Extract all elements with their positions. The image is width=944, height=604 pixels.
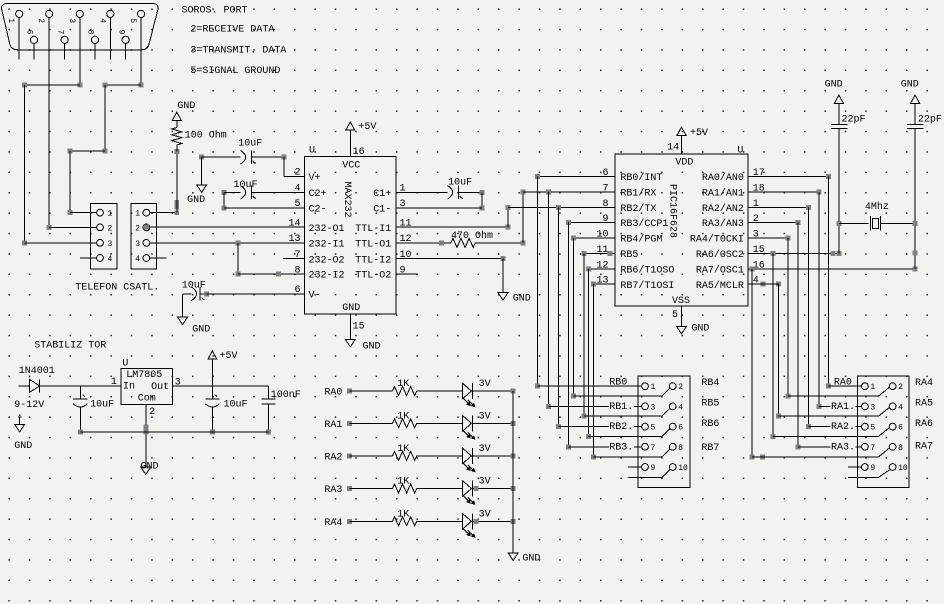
- svg-text:3: 3: [135, 240, 140, 249]
- wire R6 to LED D5: [417, 488, 463, 490]
- svg-text:4: 4: [135, 255, 140, 264]
- svg-text:10uF: 10uF: [90, 400, 114, 411]
- svg-text:1: 1: [108, 210, 113, 219]
- svg-text:C2+: C2+: [309, 189, 327, 200]
- connector J5 pin 2: [889, 383, 896, 390]
- ground symbol above R1: [172, 112, 181, 120]
- svg-text:RA0: RA0: [834, 377, 852, 388]
- svg-text:3=TRANSMIT. DATA: 3=TRANSMIT. DATA: [190, 46, 286, 57]
- wire R5 to LED D4: [417, 455, 463, 457]
- capacitor C4 10uF: [396, 191, 447, 193]
- svg-text:1: 1: [111, 377, 117, 388]
- wire J2 pin4 stub: [80, 257, 97, 259]
- svg-text:8: 8: [678, 444, 683, 453]
- connector J4 header body: [638, 376, 690, 487]
- capacitor C5 10uF: [183, 293, 192, 295]
- svg-text:10: 10: [678, 464, 688, 473]
- svg-text:GND: GND: [522, 554, 540, 565]
- svg-text:GND: GND: [141, 461, 159, 472]
- svg-text:GND: GND: [192, 325, 210, 336]
- resistor R2 470 Ohm: [396, 242, 451, 244]
- svg-text:TTL-I1: TTL-I1: [355, 224, 391, 235]
- wire U3 RA5/MCLR to J5 pin4: [760, 282, 765, 287]
- svg-text:C1+: C1+: [373, 189, 391, 200]
- node RA1 label: [831, 401, 856, 411]
- svg-text:3: 3: [175, 377, 181, 388]
- svg-text:1K: 1K: [397, 444, 409, 455]
- svg-text:RA5/MCLR: RA5/MCLR: [696, 280, 744, 292]
- wire LED D3 to ground rail: [473, 422, 513, 424]
- svg-text:RB4: RB4: [701, 378, 719, 389]
- svg-text:3: 3: [400, 199, 406, 210]
- svg-text:8: 8: [898, 444, 903, 453]
- input ground stub: [19, 414, 21, 416]
- svg-text:1: 1: [135, 210, 140, 219]
- svg-text:6: 6: [602, 168, 608, 179]
- svg-text:4: 4: [678, 403, 683, 412]
- wire J5 pin10 stub: [848, 476, 878, 478]
- svg-text:+5V: +5V: [690, 128, 708, 139]
- wire LED ground rail: [512, 391, 514, 553]
- wire C8 to ground rail: [79, 406, 81, 432]
- svg-text:232-O2: 232-O2: [309, 255, 345, 266]
- wire LED D2 to ground rail: [473, 390, 513, 392]
- ground symbol below U4: [141, 467, 151, 475]
- svg-text:RA3: RA3: [324, 485, 342, 496]
- ground symbol above C7: [911, 95, 920, 103]
- capacitor C9 10uF output: [211, 386, 213, 399]
- wire C6 to ground: [838, 103, 840, 124]
- wire J3 pin1 to resistor R1: [150, 212, 177, 214]
- svg-text:GND: GND: [187, 195, 205, 206]
- svg-text:9: 9: [116, 30, 125, 35]
- resistor R3 1K: [393, 387, 417, 396]
- svg-text:7: 7: [602, 183, 608, 194]
- ground symbol below C5: [178, 317, 188, 325]
- connector J1 DB9 shell: [1, 4, 158, 50]
- svg-text:8: 8: [294, 265, 300, 276]
- LED D4 3V: [463, 448, 472, 463]
- svg-text:12: 12: [400, 234, 412, 245]
- wire branch 232-I1 to 232-I2: [237, 243, 239, 274]
- connector J5 pin 9: [862, 464, 869, 471]
- connector J4 pin 1: [642, 383, 649, 390]
- svg-text:RA1: RA1: [324, 420, 342, 431]
- svg-text:4Mhz: 4Mhz: [865, 201, 889, 213]
- node RB2 label: [609, 421, 634, 431]
- svg-text:8: 8: [602, 199, 608, 210]
- wire R2 to U3 RB1/RX: [475, 242, 523, 244]
- LED D5 3V: [463, 481, 472, 496]
- U2 pin 16 VCC wire: [349, 130, 351, 157]
- svg-text:RB6: RB6: [701, 419, 719, 430]
- svg-text:+5V: +5V: [220, 351, 238, 362]
- svg-text:RB1/RX: RB1/RX: [620, 187, 656, 199]
- connector J1 pin 3: [76, 10, 83, 17]
- svg-text:4: 4: [753, 276, 759, 287]
- svg-text:15: 15: [353, 321, 365, 332]
- wire U3 RA6/OSC2 to J5 pin6: [748, 252, 839, 254]
- ground symbol at input: [15, 424, 25, 432]
- wire RA1 to resistor: [347, 421, 352, 426]
- LED D3 3V: [463, 416, 472, 431]
- wire C1 to U2 V+: [251, 156, 283, 158]
- wire U3 RB2 net to J4 pin5: [556, 205, 561, 210]
- svg-text:2: 2: [135, 224, 140, 233]
- capacitor C10 100nF: [267, 386, 269, 399]
- connector J2 pin 4: [97, 255, 104, 262]
- svg-text:GND: GND: [691, 324, 709, 335]
- svg-text:RA4: RA4: [324, 518, 342, 529]
- wire RA0 to resistor: [347, 389, 352, 394]
- power +5V above U2: [346, 122, 355, 130]
- svg-text:5: 5: [294, 199, 300, 210]
- svg-text:3V: 3V: [479, 379, 491, 390]
- svg-text:U: U: [122, 358, 128, 369]
- wire J1 pin2 to J2 pin2 (receive): [48, 60, 50, 228]
- wire U3 RB1 net to J4 pin3: [546, 189, 551, 194]
- svg-text:8: 8: [86, 30, 95, 35]
- connector J1 pin 9: [122, 36, 129, 43]
- svg-text:9: 9: [651, 464, 656, 473]
- svg-text:1: 1: [651, 383, 656, 392]
- svg-text:6: 6: [678, 424, 683, 433]
- LED D6 3V: [463, 514, 472, 529]
- svg-text:RA5: RA5: [915, 399, 933, 410]
- wire J1 pin5 to J2 pin1 (signal ground): [140, 60, 142, 85]
- connector J5 pin 10: [889, 464, 896, 471]
- svg-text:10uF: 10uF: [182, 280, 206, 291]
- wire C5 to U2 V-: [200, 293, 206, 295]
- ground symbol below TTL-I2 wire: [498, 293, 508, 301]
- wire U3 RB7 to J4 pin8: [594, 283, 615, 285]
- svg-text:2: 2: [294, 168, 300, 179]
- svg-text:16: 16: [753, 260, 765, 271]
- svg-text:1: 1: [753, 199, 759, 210]
- wire J4 pin9 stub: [628, 466, 642, 468]
- wire capacitor C1 left to ground: [199, 155, 204, 160]
- wire C7 to crystal net OSC1: [914, 129, 916, 269]
- node RA2 label: [831, 421, 856, 431]
- svg-text:V-: V-: [309, 290, 321, 301]
- microcontroller U3 PIC16F628 body: [615, 154, 748, 306]
- svg-text:C1-: C1-: [373, 204, 391, 215]
- svg-text:GND: GND: [342, 303, 360, 314]
- svg-text:4: 4: [294, 184, 300, 195]
- wire RA3 to resistor: [347, 486, 352, 491]
- svg-text:RB7: RB7: [701, 443, 719, 454]
- svg-text:C2-: C2-: [309, 204, 327, 215]
- connector J1 pin 7: [61, 36, 68, 43]
- connector J4 pin 10: [669, 464, 676, 471]
- svg-text:2: 2: [36, 18, 45, 23]
- connector J2 pin 2: [97, 224, 104, 231]
- svg-text:TTL-O1: TTL-O1: [355, 240, 391, 251]
- connector J4 pin 4: [669, 403, 676, 410]
- svg-text:11: 11: [596, 245, 608, 256]
- wire U3 RA3 to J5 pin7: [748, 222, 798, 224]
- svg-text:1K: 1K: [397, 411, 409, 422]
- svg-text:RB0/INT: RB0/INT: [620, 172, 662, 184]
- svg-text:9-12V: 9-12V: [14, 400, 44, 411]
- ground symbol below U2: [345, 339, 355, 347]
- svg-text:232-I2: 232-I2: [309, 271, 345, 282]
- U2 pin 7 232-O2 stub: [283, 258, 304, 260]
- svg-text:1K: 1K: [397, 509, 409, 520]
- svg-text:10uF: 10uF: [448, 177, 472, 188]
- svg-text:1K: 1K: [397, 379, 409, 390]
- svg-text:13: 13: [288, 234, 300, 245]
- svg-text:7: 7: [870, 444, 875, 453]
- wire J4 pin10 stub: [628, 476, 662, 478]
- svg-text:RB6/T1OSO: RB6/T1OSO: [620, 264, 674, 276]
- svg-text:10: 10: [596, 230, 608, 241]
- svg-text:6: 6: [294, 285, 300, 296]
- svg-text:100nF: 100nF: [271, 390, 301, 401]
- svg-text:3: 3: [753, 230, 759, 241]
- wire J3 pin3 to U2 232-I1: [150, 242, 305, 244]
- svg-text:3: 3: [67, 18, 76, 23]
- svg-text:TTL-I2: TTL-I2: [355, 255, 391, 266]
- connector J5 pin 6: [889, 423, 896, 430]
- svg-text:1: 1: [400, 184, 406, 195]
- svg-text:RB4/PGM: RB4/PGM: [620, 234, 662, 246]
- svg-text:11: 11: [400, 218, 412, 229]
- svg-text:1: 1: [870, 383, 875, 392]
- svg-text:4: 4: [898, 403, 903, 412]
- power +5V at U4 output: [211, 359, 213, 386]
- svg-text:RB3/CCP1: RB3/CCP1: [620, 218, 668, 230]
- svg-text:RA0: RA0: [324, 388, 342, 399]
- svg-text:GND: GND: [363, 342, 381, 353]
- svg-text:RA4: RA4: [915, 378, 933, 389]
- svg-text:100 Ohm: 100 Ohm: [185, 130, 227, 142]
- svg-text:GND: GND: [825, 79, 843, 90]
- svg-text:10uF: 10uF: [238, 139, 262, 150]
- connector J1 pin 6: [30, 36, 37, 43]
- connector J5 pin 3: [862, 403, 869, 410]
- regulator U4 LM7805 body: [121, 369, 172, 405]
- resistor R6 1K: [393, 484, 417, 493]
- capacitor C8 10uF input: [79, 386, 81, 399]
- connector J4 pin 9: [642, 464, 649, 471]
- wire R3 to LED D2: [417, 390, 463, 392]
- svg-text:1K: 1K: [397, 477, 409, 488]
- wire C2 to U2 C2-: [223, 192, 225, 208]
- svg-text:RB3.: RB3.: [609, 442, 633, 453]
- svg-text:1N4001: 1N4001: [19, 366, 55, 377]
- connector J1 pin 5: [138, 10, 145, 17]
- connector J2 pin 3: [97, 240, 104, 247]
- wire U3 RA0 to J5 pin1: [748, 175, 829, 177]
- wire C7 to ground: [914, 103, 916, 124]
- connector J2 telephone left: [90, 203, 117, 269]
- node RB1 label: [609, 401, 634, 411]
- capacitor C6 22pF left: [831, 123, 847, 125]
- svg-text:RA1/AN1: RA1/AN1: [702, 187, 744, 199]
- wire D1 to U4 In: [40, 385, 121, 387]
- U2 pin 15 GND wire: [349, 314, 351, 339]
- wire U3 RB0 to J4 pin1: [537, 175, 615, 177]
- connector J3 telephone right: [131, 203, 157, 269]
- svg-text:22pF: 22pF: [918, 114, 942, 125]
- svg-text:10: 10: [898, 464, 908, 473]
- connector J4 pin 2: [669, 383, 676, 390]
- connector J1 pin 2: [46, 10, 53, 17]
- svg-text:9: 9: [400, 265, 406, 276]
- svg-text:RB7/T1OSI: RB7/T1OSI: [620, 280, 674, 292]
- ground symbol below C1: [197, 185, 207, 193]
- connector J4 pin 5: [642, 423, 649, 430]
- svg-text:RA2/AN2: RA2/AN2: [702, 203, 744, 215]
- connector J4 pin 8: [669, 443, 676, 450]
- connector J5 pin 7: [862, 443, 869, 450]
- connector J4 pin 3: [642, 403, 649, 410]
- svg-text:22pF: 22pF: [842, 114, 866, 125]
- connector J5 pin 4: [889, 403, 896, 410]
- capacitor C7 22pF right: [907, 123, 923, 125]
- wire U3 RA4 to J5 pin2: [748, 237, 788, 239]
- svg-text:RB5: RB5: [701, 399, 719, 410]
- svg-text:5=SIGNAL GROUND: 5=SIGNAL GROUND: [190, 66, 280, 77]
- connector J5 header body: [858, 376, 909, 487]
- svg-text:2: 2: [108, 224, 113, 233]
- svg-text:3V: 3V: [479, 444, 491, 455]
- svg-text:14: 14: [667, 143, 679, 154]
- capacitor C1 10uF: [202, 156, 241, 158]
- svg-text:232-I1: 232-I1: [309, 240, 345, 251]
- svg-text:470 Ohm: 470 Ohm: [451, 230, 493, 242]
- resistor R7 1K: [393, 517, 417, 526]
- svg-text:Com: Com: [138, 394, 156, 405]
- svg-text:7: 7: [294, 250, 300, 261]
- resistor R4 1K: [393, 419, 417, 428]
- svg-text:2: 2: [753, 214, 759, 225]
- svg-text:VCC: VCC: [342, 161, 360, 172]
- power +5V above U3: [677, 127, 686, 135]
- crystal X1 4Mhz: [839, 222, 868, 224]
- svg-text:9: 9: [870, 464, 875, 473]
- svg-text:VSS: VSS: [672, 296, 690, 307]
- U3 pin 5 VSS wire: [681, 306, 683, 327]
- svg-text:2: 2: [898, 383, 903, 392]
- wire J3 pin2 to U2 232-O1: [150, 226, 305, 228]
- svg-text:RB2/TX: RB2/TX: [620, 203, 656, 215]
- svg-text:15: 15: [753, 245, 765, 256]
- svg-text:RA3.: RA3.: [831, 442, 855, 453]
- wire U2 TTL-I2 to ground: [396, 258, 503, 260]
- svg-text:232-O1: 232-O1: [309, 224, 345, 235]
- svg-text:RA3/AN3: RA3/AN3: [702, 218, 744, 230]
- wire C9 to ground rail: [211, 406, 213, 432]
- svg-text:TTL-O2: TTL-O2: [355, 271, 391, 282]
- connector J5 pin 5: [862, 423, 869, 430]
- svg-text:+5V: +5V: [358, 122, 376, 133]
- ground symbol below U3: [677, 326, 687, 334]
- svg-text:10: 10: [400, 250, 412, 261]
- svg-text:In: In: [123, 381, 135, 392]
- wire U3 RA1 to J5 pin3: [748, 191, 819, 193]
- wire U3 RA2 to J5 pin5: [748, 206, 808, 208]
- resistor R5 1K: [393, 451, 417, 460]
- svg-text:12: 12: [596, 260, 608, 271]
- svg-text:RA7: RA7: [915, 441, 933, 452]
- wire stabilizer ground rail: [80, 431, 268, 433]
- node RB3 label: [609, 441, 634, 451]
- connector J5 pin 8: [889, 443, 896, 450]
- svg-text:V+: V+: [309, 173, 321, 184]
- svg-text:1: 1: [6, 18, 15, 23]
- wire C2 to U2 C2+: [251, 191, 304, 193]
- wire LED D4 to ground rail: [473, 455, 513, 457]
- svg-text:3V: 3V: [479, 509, 491, 520]
- svg-text:GND: GND: [901, 79, 919, 90]
- svg-text:7: 7: [651, 444, 656, 453]
- svg-text:2=RECEIVE DATA: 2=RECEIVE DATA: [190, 25, 274, 36]
- wire R1 to ground: [176, 120, 178, 127]
- connector J5 pin 1: [862, 383, 869, 390]
- svg-text:STABILIZ TOR: STABILIZ TOR: [34, 340, 106, 351]
- wire C5 to ground: [182, 294, 184, 317]
- svg-text:RB5: RB5: [620, 250, 638, 261]
- svg-text:SOROS. PORT: SOROS. PORT: [182, 5, 248, 16]
- ground symbol above C6: [834, 95, 843, 103]
- svg-text:3V: 3V: [479, 477, 491, 488]
- svg-text:RA6/OSC2: RA6/OSC2: [696, 249, 744, 261]
- svg-text:TELEFON CSATL.: TELEFON CSATL.: [75, 282, 159, 293]
- svg-text:RA0/AN0: RA0/AN0: [702, 172, 744, 184]
- svg-text:3V: 3V: [479, 411, 491, 422]
- svg-text:RA2.: RA2.: [831, 422, 855, 433]
- wire U2 TTL-I1 to U3 RB2/TX: [396, 226, 508, 228]
- wire J1 pin3 to J2 pin3 (transmit): [79, 60, 81, 85]
- wire LED D6 to ground rail: [473, 520, 513, 522]
- wire R7 to LED D6: [417, 520, 463, 522]
- svg-text:4: 4: [97, 18, 106, 23]
- connector J4 pin 6: [669, 423, 676, 430]
- svg-text:LM7805: LM7805: [126, 370, 162, 381]
- svg-text:MAX232: MAX232: [341, 181, 352, 217]
- node RA3 label: [831, 441, 856, 451]
- svg-text:16: 16: [353, 147, 365, 158]
- svg-text:5: 5: [870, 424, 875, 433]
- svg-text:RB0: RB0: [609, 377, 627, 388]
- wire RA4 to resistor: [347, 519, 352, 524]
- svg-text:Out: Out: [151, 382, 169, 393]
- connector J1 pin 1: [16, 10, 23, 17]
- svg-text:RA1.: RA1.: [831, 402, 855, 413]
- U2 pin 9 TTL-O2 stub: [396, 273, 417, 275]
- wire RA2 to resistor: [347, 453, 352, 458]
- svg-text:5: 5: [672, 310, 678, 321]
- svg-text:3: 3: [651, 403, 656, 412]
- connector J1 pin 8: [91, 36, 98, 43]
- svg-text:2: 2: [678, 383, 683, 392]
- svg-text:RA6: RA6: [915, 419, 933, 430]
- connector J2 pin 1: [97, 209, 104, 216]
- svg-text:18: 18: [753, 183, 765, 194]
- svg-text:RA4/T0CKI: RA4/T0CKI: [690, 234, 744, 246]
- svg-text:VDD: VDD: [675, 158, 693, 169]
- wire U3 RB6 to J4 pin6: [589, 268, 615, 270]
- U3 pin 14 VDD wire: [681, 135, 683, 154]
- wire U3 RB5 to J4 pin4: [584, 252, 615, 254]
- svg-text:17: 17: [753, 168, 765, 179]
- svg-text:3: 3: [870, 403, 875, 412]
- connector J1 pin 4: [107, 10, 114, 17]
- svg-text:9: 9: [602, 214, 608, 225]
- svg-text:7: 7: [55, 30, 64, 35]
